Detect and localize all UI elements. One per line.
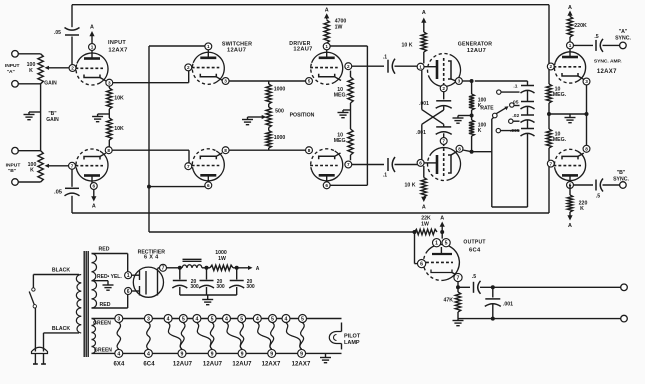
wire: sync grid chain mid — [548, 103, 550, 129]
svg-text:MEG.: MEG. — [334, 138, 348, 144]
switch contact 3 — [509, 119, 520, 123]
ground: sync cathodes — [565, 114, 576, 123]
wire: rate line y81 to cap bank — [475, 80, 528, 82]
wire: driver pin7 to C4 — [352, 164, 385, 166]
svg-text:4: 4 — [167, 316, 170, 322]
tube V2b SWITCHER 12AU7 section B — [192, 149, 225, 184]
svg-text:2: 2 — [187, 65, 190, 70]
svg-text:A: A — [568, 5, 572, 11]
wire: pole riser down — [492, 117, 494, 207]
terminal: B SYNC — [613, 170, 629, 188]
svg-text:9: 9 — [181, 351, 184, 357]
svg-text:9: 9 — [211, 351, 214, 357]
svg-text:10K: 10K — [114, 96, 124, 102]
tube V5b SYNC AMP 12AX7 section B — [553, 149, 585, 183]
svg-text:8: 8 — [107, 148, 110, 153]
wire: B+ out — [233, 267, 250, 269]
pin 6 of V4b — [417, 159, 424, 166]
resistor R7 1000 (position bottom) — [266, 128, 285, 151]
svg-text:6: 6 — [127, 289, 130, 295]
wire: gen pin3 to 100K chain — [462, 80, 472, 82]
wire: pin6 to C12 — [570, 185, 593, 188]
wire: filter cap ground bus — [180, 294, 237, 296]
wire: input A terminals to pot — [18, 54, 40, 84]
svg-text:5: 5 — [271, 316, 274, 322]
wire: sync cathode ground tap — [549, 113, 587, 115]
supply arrow A above output — [440, 215, 445, 232]
svg-text:6C4: 6C4 — [469, 247, 481, 253]
junction: .001 bottom — [491, 317, 495, 321]
resistor R18 47K — [444, 292, 461, 312]
supply arrow A (B+ out) — [248, 266, 260, 272]
pin 2 of V5a — [547, 63, 554, 70]
svg-text:3: 3 — [108, 80, 111, 85]
supply arrow A above R15 — [567, 5, 572, 17]
capacitor C7 .1 (rate) — [513, 83, 534, 93]
wire: gen pin1 drop — [421, 70, 423, 110]
svg-text:MEG.: MEG. — [553, 92, 567, 98]
svg-text:12AU7: 12AU7 — [232, 361, 252, 367]
svg-text:.1: .1 — [383, 173, 387, 179]
ground: output return — [453, 319, 464, 326]
svg-text:LAMP: LAMP — [344, 340, 360, 346]
wire: cross-coupling X — [422, 106, 444, 124]
wire: output bottom line — [458, 318, 621, 320]
wire: C4 to generator pin6 — [395, 164, 418, 166]
svg-text:12AU7: 12AU7 — [467, 48, 486, 54]
svg-text:GREEN: GREEN — [93, 321, 111, 327]
pin 7 of V1b — [69, 162, 76, 169]
svg-text:SYNC.: SYNC. — [615, 35, 631, 41]
ground: input pots — [24, 115, 35, 120]
svg-text:"B": "B" — [8, 168, 16, 174]
svg-text:GAIN: GAIN — [46, 117, 59, 123]
rotary switch pole — [493, 106, 509, 117]
capacitor C16 20/300 — [199, 268, 225, 295]
svg-text:INPUT: INPUT — [108, 40, 126, 46]
svg-text:.001: .001 — [503, 302, 513, 308]
svg-text:SYNC.: SYNC. — [613, 177, 629, 183]
wire: cap bank spine — [527, 81, 529, 207]
junction: bus2 to output grid — [413, 230, 417, 234]
junction: riser to switcher pin6 wire — [147, 185, 205, 189]
svg-text:SYNC. AMP.: SYNC. AMP. — [594, 58, 622, 64]
svg-text:10 K: 10 K — [405, 183, 416, 189]
resistor R15 220K (sync plate A) — [567, 17, 587, 43]
pin 3 of V5a — [583, 78, 590, 85]
svg-text:10 K: 10 K — [402, 43, 413, 49]
svg-text:3: 3 — [458, 79, 461, 84]
wire: .001 stem bottom — [492, 305, 494, 319]
pin 2 of V4a — [440, 85, 447, 92]
svg-text:.05: .05 — [54, 190, 63, 196]
wire: sync cathode line — [586, 85, 588, 146]
tube V3a DRIVER 12AU7 section A — [289, 41, 342, 85]
svg-text:BLACK: BLACK — [52, 268, 70, 274]
svg-text:K: K — [580, 206, 584, 212]
pin 1 of V2a — [205, 43, 212, 50]
tube V4b GENERATOR 12AU7 section B — [424, 144, 461, 180]
wiper+ground of R6 — [242, 115, 266, 125]
svg-text:9: 9 — [300, 351, 303, 357]
potentiometer R6 500 POSITION — [266, 104, 315, 128]
resistor R16 220K (sync plate B) — [567, 188, 587, 212]
resistor R14 100K — [469, 120, 486, 152]
svg-text:.1: .1 — [383, 55, 387, 61]
svg-text:.5: .5 — [472, 274, 476, 280]
ground: HV center tap — [103, 281, 114, 291]
pin 7 of V5b — [547, 160, 554, 167]
junction: 100K bottom — [470, 150, 474, 154]
svg-text:12AX7: 12AX7 — [262, 361, 281, 367]
svg-text:5: 5 — [301, 316, 304, 322]
svg-text:1W: 1W — [335, 24, 343, 30]
pin 7 of V2b — [185, 163, 192, 170]
pin 3 of V4a — [455, 78, 462, 85]
tube V4a GENERATOR 12AU7 section A — [424, 42, 492, 87]
pin 1 of V7 — [125, 272, 132, 279]
pin 5 of V6 — [442, 239, 450, 247]
terminal: INPUT A ground side — [12, 81, 19, 88]
wire: right riser x367 — [366, 46, 368, 185]
pin 1 of V3a — [323, 43, 330, 50]
svg-text:MEG.: MEG. — [553, 137, 567, 143]
svg-text:A: A — [325, 8, 329, 14]
svg-text:300: 300 — [216, 284, 225, 290]
svg-text:INPUT: INPUT — [5, 63, 20, 69]
resistor R8 4700 1W (driver plate) — [324, 19, 346, 43]
terminal: INPUT A hot — [5, 51, 20, 75]
svg-text:A: A — [568, 223, 572, 229]
resistor R-sync-grid-B 10 MEG — [546, 129, 566, 160]
wire: pot A bottom to pot B top — [40, 84, 42, 151]
svg-text:300: 300 — [190, 284, 199, 290]
svg-text:3: 3 — [147, 316, 150, 322]
switch contact 1 — [497, 90, 520, 94]
resistor R11 10K (generator plate A) — [402, 32, 427, 63]
svg-text:A: A — [422, 10, 426, 16]
heater jumper wires — [117, 323, 304, 349]
svg-text:7: 7 — [347, 162, 350, 167]
svg-text:8: 8 — [224, 148, 227, 153]
wire: C6 stem and gen pin6 drop — [422, 124, 444, 159]
svg-text:3: 3 — [224, 79, 227, 84]
wire: C3 to generator pin1 — [395, 65, 418, 67]
ground: heater string — [320, 353, 331, 362]
pin 1 of V5a — [567, 42, 574, 49]
supply arrow A below R12 — [421, 197, 426, 211]
svg-text:4: 4 — [285, 316, 288, 322]
capacitor C6 .001 — [416, 127, 452, 136]
resistor R-sync-grid-A 10 MEG — [546, 70, 566, 103]
svg-text:RED• YEL.: RED• YEL. — [97, 274, 122, 280]
wire: gen pin8 to rate pole riser — [463, 150, 492, 152]
terminal: A SYNC — [615, 29, 631, 49]
svg-text:47K: 47K — [444, 298, 454, 304]
wire: feedback loop left drop to C1 — [71, 5, 73, 28]
junction: filter cap 3 tap — [235, 266, 239, 270]
pin 8 of V3b — [306, 147, 313, 154]
svg-text:GENERATOR: GENERATOR — [458, 42, 493, 48]
svg-text:6: 6 — [420, 261, 423, 267]
wire: V1a pin3 to switcher pin2 — [113, 71, 189, 83]
pin 2 of V2a — [185, 64, 192, 71]
wire: input B terminals to pot — [18, 151, 40, 182]
pin 1 of V4a — [417, 63, 424, 70]
svg-text:K: K — [478, 128, 482, 134]
wire: pin7 to cathode node — [457, 282, 459, 292]
pin 3 of V1a — [106, 79, 113, 86]
svg-text:1: 1 — [127, 273, 130, 279]
svg-text:1: 1 — [419, 64, 422, 69]
tube V1b INPUT 12AX7 section B — [75, 149, 108, 184]
svg-text:12AX7: 12AX7 — [108, 48, 127, 54]
svg-text:.5: .5 — [596, 194, 600, 200]
svg-text:8: 8 — [585, 146, 588, 151]
svg-text:.02: .02 — [512, 113, 519, 119]
svg-text:10K: 10K — [114, 126, 124, 132]
wire: C12 to B sync terminal — [603, 184, 620, 186]
wire: plate feed to pins 1,5 — [441, 232, 443, 239]
pin 1 of V6 — [433, 239, 441, 247]
svg-text:1: 1 — [91, 45, 94, 50]
svg-text:.1: .1 — [513, 83, 517, 89]
svg-text:6: 6 — [325, 183, 328, 188]
svg-text:2: 2 — [347, 64, 350, 69]
tube V3b DRIVER 12AU7 section B — [310, 149, 343, 184]
svg-text:A: A — [90, 25, 94, 31]
capacitor C11 .5 (A sync out) — [594, 34, 603, 52]
svg-text:7: 7 — [187, 164, 190, 169]
heater pins top rail — [115, 315, 307, 323]
pin 5 of V3a — [306, 78, 313, 85]
wire: feedback loop top line — [72, 4, 549, 6]
supply arrow A above R11 — [421, 10, 426, 32]
svg-text:OUTPUT: OUTPUT — [463, 240, 485, 246]
transformer T1 primary winding — [76, 275, 81, 334]
junction: pin3/rate line — [470, 79, 474, 83]
wire: HV center tap RED-YEL — [92, 274, 123, 281]
wire: V1b pin8 to switcher pin7 — [112, 150, 189, 162]
capacitor C8 .05 (rate) — [512, 100, 535, 110]
svg-text:5: 5 — [211, 316, 214, 322]
resistor R9 10 MEG (driver grid A) — [334, 71, 353, 103]
terminal: INPUT B hot — [6, 147, 21, 174]
pin 1 of V1a — [89, 44, 96, 51]
resistor R19 1000 1W — [210, 250, 233, 271]
svg-text:K: K — [30, 167, 34, 173]
wire: .001 stem top — [492, 287, 494, 297]
pin 8 of V5b — [583, 145, 590, 152]
pin 7 of V7 — [160, 264, 167, 271]
supply arrow A above V1a — [89, 25, 94, 44]
supply arrow A above R8 — [324, 8, 329, 20]
svg-text:4: 4 — [195, 316, 198, 322]
svg-text:4: 4 — [256, 316, 259, 322]
resistor R10 10 MEG (driver grid B) — [334, 129, 353, 160]
svg-text:7: 7 — [71, 163, 74, 168]
potentiometer R2 100K GAIN (B) — [28, 111, 59, 182]
wire+ground: 100K chain mid — [453, 110, 472, 123]
pin 7 of V6 — [454, 273, 462, 281]
capacitor C10 .005 (rate) — [510, 128, 534, 136]
pin 2 of V1a — [69, 65, 76, 72]
resistor R5 1000 (position top) — [266, 81, 285, 104]
wire: driver pin2 to C3 — [352, 65, 385, 67]
svg-text:220K: 220K — [574, 23, 587, 29]
switch contact 2 — [510, 103, 520, 107]
svg-text:2: 2 — [549, 64, 552, 69]
svg-text:1: 1 — [435, 241, 438, 247]
pin 7 of V3b — [345, 161, 352, 168]
svg-text:1W: 1W — [218, 256, 226, 262]
heater pins bottom rail — [115, 349, 306, 357]
svg-text:A: A — [92, 204, 96, 210]
junction: 100K mid — [470, 114, 474, 118]
transformer T1 core — [84, 251, 88, 357]
capacitor C4 .1 (driver to generator bottom) — [383, 157, 395, 179]
svg-text:.05: .05 — [512, 100, 519, 106]
wire: HV bottom (RED) to rectifier pin6 — [92, 295, 128, 309]
wire+ground: cathode divider ground — [92, 114, 109, 122]
capacitor C5 .001 — [419, 101, 452, 109]
wire: gen pin2 to C5 — [443, 92, 445, 100]
svg-text:12AX7: 12AX7 — [292, 361, 311, 367]
svg-text:RED: RED — [99, 247, 110, 253]
resistor R17 22K 1W — [415, 216, 438, 235]
svg-text:.5: .5 — [594, 34, 598, 40]
wire: pin7 down to C2 — [71, 169, 73, 187]
svg-text:5: 5 — [308, 79, 311, 84]
junction: filter cap 1 tap — [178, 266, 182, 270]
capacitor C3 .1 (driver to generator top) — [383, 55, 395, 74]
svg-text:BLACK: BLACK — [52, 326, 70, 332]
svg-text:1W: 1W — [421, 221, 429, 227]
svg-text:"A": "A" — [7, 69, 15, 75]
svg-text:"A": "A" — [619, 29, 628, 35]
wire: cathode divider mid — [108, 109, 110, 118]
pin 3 of V2a — [222, 78, 229, 85]
svg-text:INPUT: INPUT — [6, 162, 21, 168]
svg-text:1: 1 — [325, 44, 328, 49]
svg-text:6: 6 — [92, 184, 95, 189]
tube V1a INPUT 12AX7 section A — [75, 40, 127, 85]
svg-text:"B": "B" — [617, 170, 626, 176]
svg-text:4: 4 — [117, 351, 120, 357]
label: RATE — [480, 106, 494, 112]
wire: rate bottom link — [492, 206, 528, 208]
pin 6 of V6 — [418, 260, 426, 268]
label: BLACK lower — [52, 326, 70, 332]
potentiometer R1 100K GAIN (A) — [27, 54, 57, 87]
wire: bus2 (to output grid) — [149, 231, 415, 233]
wire: switcher pin3 to driver pin5 — [229, 80, 306, 82]
svg-text:.05: .05 — [54, 30, 61, 36]
tube V6 OUTPUT 6C4 — [423, 240, 485, 281]
tube V2a SWITCHER 12AU7 section A — [192, 42, 252, 85]
svg-text:RATE: RATE — [480, 106, 494, 112]
pin 6 of V5b — [567, 182, 574, 189]
wire: 47K to bottom line — [457, 312, 459, 319]
svg-text:5: 5 — [445, 241, 448, 247]
pin 2 of V3a — [345, 63, 352, 70]
junction: .001 top — [491, 285, 495, 289]
tube V5a SYNC AMP 12AX7 section A — [553, 49, 622, 83]
resistor R12 10K (generator plate B) — [405, 166, 427, 197]
svg-text:POSITION: POSITION — [290, 112, 315, 118]
svg-text:8: 8 — [458, 146, 461, 151]
pin 8 of V2b — [222, 147, 229, 154]
svg-text:6X4: 6X4 — [114, 361, 126, 367]
pin 8 of V1b — [105, 147, 112, 154]
svg-text:.005: .005 — [510, 128, 520, 134]
svg-text:1: 1 — [569, 43, 572, 48]
svg-text:6C4: 6C4 — [143, 361, 155, 367]
wiper arrow of R2 to pin7 — [45, 164, 73, 168]
svg-text:PILOT: PILOT — [344, 334, 361, 340]
svg-text:3: 3 — [117, 316, 120, 322]
wire: AC neutral — [44, 333, 80, 352]
svg-text:RED: RED — [100, 302, 111, 308]
svg-text:A: A — [440, 215, 444, 221]
wire: B+ rail from pin7 — [167, 267, 183, 269]
svg-text:K: K — [29, 68, 33, 74]
svg-text:2: 2 — [442, 86, 445, 91]
wire: C11 to A sync terminal — [603, 44, 620, 46]
svg-text:8: 8 — [308, 148, 311, 153]
wire: HV top (RED) to rectifier pin1 — [92, 247, 128, 272]
svg-text:12AU7: 12AU7 — [227, 48, 246, 54]
label: BLACK upper — [52, 268, 70, 274]
wire: bus1 bottom feedback line — [72, 212, 549, 214]
svg-text:1000: 1000 — [274, 87, 286, 93]
svg-text:5: 5 — [182, 316, 185, 322]
supply arrow A below R16 — [567, 212, 572, 229]
pilot lamp — [329, 323, 361, 350]
inductor L1 filter choke — [182, 259, 202, 268]
wire+ground: driver grid divider ground — [338, 103, 351, 129]
wire: C1 to pin 2 input A — [71, 37, 73, 65]
svg-text:12AU7: 12AU7 — [173, 361, 193, 367]
svg-text:500: 500 — [275, 109, 284, 115]
junction: filter cap 2 tap — [205, 266, 209, 270]
transformer T1 filament secondary — [92, 319, 96, 354]
wire: plate line y46 left (to switcher pin 1) — [149, 45, 205, 47]
wire: driver pin6 to right riser — [330, 184, 367, 186]
svg-text:A: A — [422, 204, 426, 210]
wire: gain pots ground tap — [29, 112, 41, 115]
svg-text:7: 7 — [457, 275, 460, 281]
terminal: output hot — [621, 284, 628, 291]
wire: heater rail bottom (GREEN) — [92, 347, 342, 353]
transformer T1 HV secondary — [92, 254, 97, 309]
svg-text:7: 7 — [162, 266, 165, 272]
capacitor C1 .05 (input A grid coupling) — [54, 28, 79, 37]
pin 6 of V3b — [323, 182, 330, 189]
capacitor C9 .02 (rate) — [512, 113, 534, 123]
svg-text:7: 7 — [549, 161, 552, 166]
svg-text:GREEN: GREEN — [94, 347, 112, 353]
svg-text:12AU7: 12AU7 — [203, 361, 223, 367]
wire: box right edge bottom segment — [548, 167, 550, 213]
junction: cathode node — [456, 285, 470, 289]
pin 6 of V2b — [205, 182, 212, 189]
svg-text:9: 9 — [241, 351, 244, 357]
wire: C2 to bus1 — [71, 196, 73, 213]
svg-text:2: 2 — [71, 66, 74, 71]
junction: 22K right / plate feed — [440, 230, 444, 234]
AC plug — [32, 347, 48, 364]
